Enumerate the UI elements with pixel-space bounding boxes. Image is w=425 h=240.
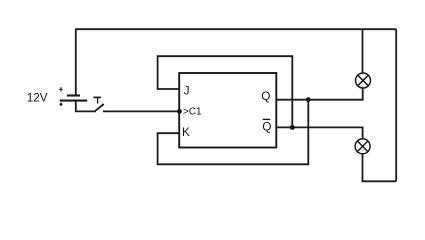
wire branch from top rail to lamp L1 <box>362 29 364 73</box>
svg-text:>C1: >C1 <box>183 107 202 118</box>
svg-text:J: J <box>184 84 190 98</box>
node C1 (clock pin dot) <box>177 109 182 114</box>
flip-flop U1 box <box>179 73 276 148</box>
node Qbar junction <box>290 125 295 130</box>
wire switch to clock C1 <box>103 110 179 112</box>
svg-text:K: K <box>182 125 190 139</box>
wire J feedback from node Qbar <box>158 56 293 127</box>
wire lamp L2 to node Qbar <box>276 127 362 139</box>
node Q junction <box>306 97 311 102</box>
svg-text:Q: Q <box>261 89 270 103</box>
battery B1 12V <box>59 87 87 106</box>
lamp L2 <box>355 139 370 154</box>
wire bottom return to lamp L2 <box>363 154 397 181</box>
wire battery negative to switch S1 <box>76 101 96 112</box>
wire K feedback from node Q <box>158 100 309 165</box>
lamp L1 <box>356 73 371 88</box>
wire lamp L1 to node Q <box>276 88 362 100</box>
wire battery positive up left side <box>75 29 77 95</box>
wire top supply rail <box>75 28 396 30</box>
wire right supply drop <box>395 29 397 181</box>
svg-text:Q: Q <box>262 119 271 133</box>
switch S1 (push button) <box>93 97 104 110</box>
svg-text:12V: 12V <box>27 92 48 105</box>
